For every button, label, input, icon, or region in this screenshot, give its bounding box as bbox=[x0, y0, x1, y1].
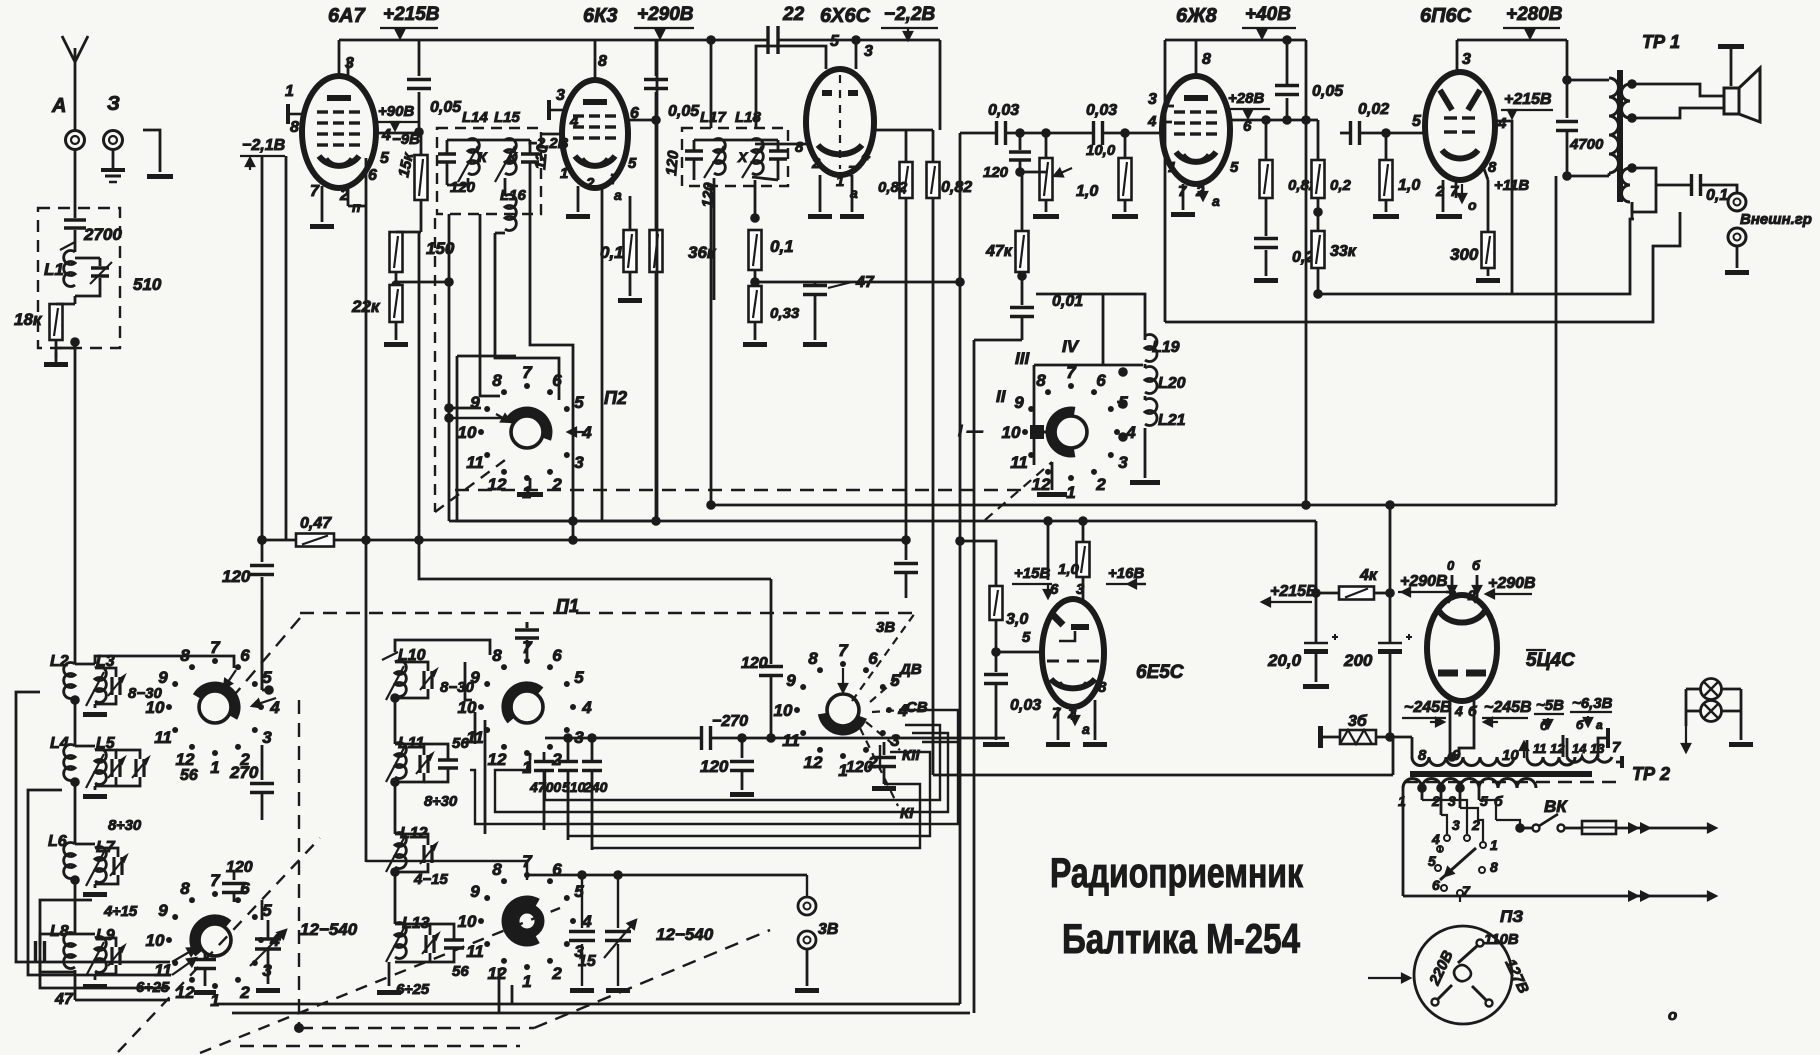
wire pin5 in bbox=[252, 698, 276, 706]
TR1 core bbox=[1617, 70, 1623, 202]
svg-text:8: 8 bbox=[1490, 859, 1498, 875]
resistor 0.1 bbox=[624, 230, 637, 272]
svg-text:3В: 3В bbox=[818, 921, 838, 938]
resistor (0.1 pair) bbox=[650, 230, 663, 272]
long wire y=299 bbox=[1512, 219, 1634, 294]
svg-text:20,0: 20,0 bbox=[1267, 651, 1302, 670]
ground bbox=[1130, 480, 1160, 485]
resistor 0.33 bbox=[749, 286, 762, 322]
ground bbox=[94, 704, 97, 708]
ground bbox=[1373, 214, 1399, 219]
wire pin2 right bbox=[545, 737, 700, 740]
capacitor 47 bbox=[755, 281, 815, 284]
wire right vertical bbox=[1305, 40, 1308, 505]
switch wafer P2-I bbox=[511, 416, 543, 448]
svg-text:4: 4 bbox=[581, 698, 592, 717]
svg-text:L18: L18 bbox=[735, 109, 762, 126]
bus y505 bbox=[711, 504, 1556, 507]
svg-text:1,0: 1,0 bbox=[1398, 177, 1420, 194]
ground bbox=[1046, 742, 1070, 747]
wire top bus bbox=[660, 39, 767, 42]
wire sec lower bbox=[1632, 168, 1656, 185]
svg-text:6: 6 bbox=[552, 371, 562, 390]
svg-text:3: 3 bbox=[864, 43, 873, 60]
svg-text:4: 4 bbox=[861, 147, 871, 164]
resistor 300 bbox=[1482, 232, 1495, 268]
capacitor (IF2 right) bbox=[769, 149, 787, 152]
svg-text:Внешн.гр: Внешн.гр bbox=[1740, 211, 1812, 228]
svg-text:2: 2 bbox=[551, 750, 562, 769]
svg-text:6П6С: 6П6С bbox=[1420, 5, 1472, 27]
ground bbox=[1083, 742, 1107, 747]
svg-text:СВ: СВ bbox=[906, 699, 928, 716]
resistor 150 bbox=[390, 232, 403, 272]
wire box down bbox=[480, 214, 500, 396]
svg-text:6: 6 bbox=[240, 646, 250, 665]
nested wires wafer3 right bbox=[899, 710, 958, 742]
wire pin9 bbox=[449, 407, 481, 410]
wire sec to speaker bbox=[1632, 84, 1724, 96]
selector rotor bbox=[1440, 848, 1476, 880]
wire bbox=[1317, 268, 1320, 294]
svg-text:47: 47 bbox=[54, 991, 74, 1008]
resistor 0.1 (det load) bbox=[749, 230, 762, 270]
ground bbox=[256, 988, 280, 993]
tube 6X6S (U3) bbox=[806, 69, 874, 175]
svg-text:8−30: 8−30 bbox=[440, 679, 474, 696]
ground bbox=[384, 342, 408, 347]
ground bbox=[1718, 44, 1744, 49]
svg-text:11: 11 bbox=[782, 731, 800, 750]
node bbox=[750, 277, 760, 287]
capacitor 120 (AVC) bbox=[261, 540, 264, 562]
svg-text:2: 2 bbox=[1095, 475, 1106, 494]
node bbox=[1017, 271, 1027, 281]
trimmer L13 bbox=[424, 935, 427, 953]
svg-text:б: б bbox=[1576, 718, 1584, 732]
switch section box bbox=[1036, 293, 1103, 296]
svg-text:+215В: +215В bbox=[383, 4, 440, 25]
fuse Pr1 bbox=[1582, 821, 1616, 834]
P2 enclosure dashed bbox=[434, 218, 436, 512]
svg-text:0,05: 0,05 bbox=[430, 99, 462, 116]
svg-text:0,03: 0,03 bbox=[1086, 102, 1117, 119]
svg-text:0,02: 0,02 bbox=[1358, 101, 1389, 118]
svg-text:4: 4 bbox=[1431, 831, 1440, 847]
pin 5 bbox=[825, 52, 828, 69]
arrow bbox=[1685, 726, 1687, 752]
wire bbox=[754, 322, 757, 340]
ground bbox=[743, 342, 767, 347]
svg-text:3б: 3б bbox=[1348, 713, 1368, 730]
primary taps bbox=[1421, 788, 1424, 800]
wire screen bbox=[1495, 121, 1512, 294]
svg-text:L15: L15 bbox=[494, 109, 521, 126]
svg-text:8: 8 bbox=[1488, 159, 1497, 176]
wire bbox=[420, 200, 423, 232]
capacitor 0.03 b bbox=[1092, 121, 1095, 145]
wire pin12 ground bbox=[529, 478, 532, 490]
svg-text:120: 120 bbox=[846, 759, 873, 776]
wire pin5 bbox=[996, 651, 1042, 654]
svg-text:14 13: 14 13 bbox=[1572, 741, 1605, 756]
svg-text:8: 8 bbox=[598, 53, 607, 70]
svg-text:8: 8 bbox=[290, 119, 299, 136]
svg-text:ДВ: ДВ bbox=[898, 661, 922, 678]
TR2 primary bbox=[1403, 779, 1536, 788]
svg-text:5: 5 bbox=[1412, 113, 1422, 130]
svg-text:0: 0 bbox=[1447, 558, 1455, 573]
svg-text:Х: Х bbox=[737, 149, 749, 165]
svg-text:6Х6С: 6Х6С bbox=[820, 5, 871, 27]
antenna W1 bbox=[74, 48, 77, 132]
voltage selector plug P3 bbox=[1414, 926, 1512, 1024]
pilot lamps bbox=[1701, 679, 1722, 700]
svg-text:3: 3 bbox=[345, 55, 354, 72]
node bbox=[1385, 588, 1395, 598]
svg-text:а: а bbox=[1212, 193, 1220, 209]
capacitor 0.02 bbox=[1349, 121, 1352, 145]
wire to wafer bbox=[1034, 431, 1050, 434]
svg-text:9: 9 bbox=[786, 671, 796, 690]
svg-text:П2: П2 bbox=[604, 388, 627, 408]
tube 6K3 (U2) bbox=[594, 40, 597, 80]
dashed link bbox=[985, 462, 1052, 520]
resistor 18k bbox=[74, 296, 77, 304]
tube 6A7 (U1) bbox=[338, 40, 341, 78]
svg-text:11 12: 11 12 bbox=[1533, 741, 1565, 756]
ground bbox=[606, 988, 630, 993]
wire +290 vertical bbox=[1389, 505, 1392, 593]
switch wafer V1a bbox=[199, 691, 231, 723]
node bbox=[390, 867, 400, 877]
wire plate bbox=[1228, 119, 1287, 122]
capacitor 120 (x906) bbox=[894, 562, 918, 565]
svg-text:+28В: +28В bbox=[1228, 90, 1264, 107]
pin 2 bbox=[347, 186, 350, 206]
svg-text:11: 11 bbox=[1010, 453, 1028, 472]
svg-text:10: 10 bbox=[1002, 423, 1021, 442]
capacitor 270 (series) bbox=[700, 726, 703, 750]
wire pin4 bbox=[1449, 742, 1452, 757]
resistor 0.82 b bbox=[927, 162, 940, 198]
wire bbox=[1736, 246, 1739, 268]
svg-text:~245В: ~245В bbox=[1404, 699, 1452, 716]
svg-text:3: 3 bbox=[890, 731, 900, 750]
svg-text:510: 510 bbox=[133, 275, 162, 294]
svg-text:7: 7 bbox=[1178, 183, 1187, 200]
capacitor (wafer1b) bbox=[204, 952, 207, 958]
TR2 HV secondary bbox=[1412, 757, 1514, 766]
svg-text:7: 7 bbox=[838, 641, 849, 660]
svg-text:2: 2 bbox=[239, 983, 250, 1002]
node bbox=[1118, 399, 1128, 409]
ground bbox=[730, 792, 754, 797]
ground bbox=[1725, 270, 1749, 275]
svg-text:110В: 110В bbox=[1484, 931, 1519, 948]
svg-text:5: 5 bbox=[380, 150, 390, 167]
pin 3 stub bbox=[549, 109, 563, 112]
wire 0.01 to x974 bbox=[974, 339, 1022, 342]
wire bbox=[1376, 736, 1412, 739]
svg-text:А: А bbox=[51, 95, 66, 117]
pickup jack 3V a bbox=[806, 875, 808, 897]
svg-text:12: 12 bbox=[176, 983, 195, 1002]
trimmer L7 bbox=[112, 857, 115, 875]
svg-text:ВК: ВК bbox=[1544, 797, 1568, 816]
ground bbox=[1303, 684, 1329, 689]
svg-text:8÷30: 8÷30 bbox=[108, 817, 142, 834]
nested wires left bbox=[16, 692, 170, 962]
svg-text:3: 3 bbox=[262, 728, 272, 747]
wire shaft bbox=[366, 861, 527, 880]
svg-text:4к: 4к bbox=[1359, 567, 1378, 584]
bottom bus pair bbox=[215, 1003, 960, 1006]
wire top link bbox=[528, 861, 530, 875]
svg-text:5: 5 bbox=[574, 668, 584, 687]
variable cap 12-540 b bbox=[617, 875, 619, 928]
wire grid1 left down bbox=[261, 156, 264, 540]
wire pin7 down bbox=[601, 226, 604, 521]
ground bbox=[94, 786, 97, 790]
wire bbox=[655, 120, 658, 521]
wire x1165 down bbox=[1164, 40, 1167, 322]
svg-text:о: о bbox=[1668, 1007, 1677, 1024]
capacitor 120 (band) bbox=[233, 872, 236, 880]
svg-text:10,0: 10,0 bbox=[1086, 142, 1116, 159]
svg-text:1: 1 bbox=[1490, 837, 1498, 853]
wire x286 down bbox=[285, 156, 288, 540]
svg-text:9: 9 bbox=[470, 882, 480, 901]
ground bbox=[566, 214, 590, 219]
svg-text:−270: −270 bbox=[712, 713, 748, 730]
svg-text:L8: L8 bbox=[50, 923, 69, 940]
capacitor 120 (right) bbox=[521, 152, 539, 155]
trimmer L11a bbox=[418, 755, 421, 773]
transformer TR1 primary bbox=[1609, 78, 1619, 173]
svg-text:4: 4 bbox=[1125, 423, 1136, 442]
ground bbox=[1476, 278, 1500, 283]
wire pin8 bbox=[755, 143, 807, 146]
svg-text:9: 9 bbox=[158, 901, 168, 920]
ground bbox=[808, 214, 832, 219]
svg-text:8: 8 bbox=[180, 879, 190, 898]
svg-text:6÷25: 6÷25 bbox=[396, 981, 430, 998]
resistor 0.47 bbox=[296, 534, 334, 547]
svg-text:22к: 22к bbox=[351, 297, 381, 316]
svg-text:300: 300 bbox=[1450, 245, 1479, 264]
trimmer 8-30 bbox=[110, 677, 113, 695]
capacitor 120 (upper) bbox=[770, 579, 773, 664]
svg-text:0,82: 0,82 bbox=[941, 179, 972, 196]
svg-text:120: 120 bbox=[226, 859, 253, 876]
svg-text:L20: L20 bbox=[1158, 375, 1186, 392]
svg-text:200: 200 bbox=[1343, 651, 1373, 670]
wire pin6 bbox=[1047, 521, 1050, 580]
svg-text:6Е5С: 6Е5С bbox=[1136, 662, 1184, 683]
svg-text:КII: КII bbox=[902, 747, 920, 764]
ground bbox=[629, 292, 632, 296]
capacitors 4700 510 240 bbox=[529, 753, 532, 760]
wire pin6 arrow bbox=[224, 670, 236, 688]
svg-text:7: 7 bbox=[1450, 183, 1459, 200]
variable cap 12-540 a bbox=[255, 937, 281, 940]
svg-text:+90В: +90В bbox=[378, 103, 414, 120]
switch wafer P2-IV (U?) bbox=[1055, 416, 1087, 448]
ground bbox=[872, 786, 896, 791]
node bbox=[390, 777, 400, 787]
AVC wire y282 bbox=[815, 281, 960, 284]
svg-text:510: 510 bbox=[562, 779, 586, 795]
wire grid from L15 bbox=[541, 133, 562, 136]
heater line bbox=[933, 774, 1393, 777]
tube 5Ts4S rectifier (U7) bbox=[1427, 595, 1497, 701]
svg-text:56: 56 bbox=[452, 963, 469, 980]
svg-text:4: 4 bbox=[381, 127, 391, 144]
capacitor L11b bbox=[438, 758, 458, 761]
node bbox=[1313, 207, 1323, 217]
svg-text:III: III bbox=[1015, 349, 1030, 368]
svg-text:~6,3В: ~6,3В bbox=[1572, 695, 1613, 712]
svg-text:0,05: 0,05 bbox=[668, 103, 700, 120]
IF transformer II dashed box bbox=[682, 128, 788, 186]
wire bbox=[900, 39, 940, 42]
tube 6E5S (U6) bbox=[1042, 599, 1104, 707]
svg-text:12−540: 12−540 bbox=[300, 920, 358, 939]
svg-text:12: 12 bbox=[488, 964, 507, 983]
P1 dashed boundary bbox=[300, 612, 915, 614]
svg-text:3: 3 bbox=[1148, 91, 1157, 108]
ground bbox=[1436, 214, 1462, 219]
svg-text:З: З bbox=[107, 93, 120, 115]
svg-text:6: 6 bbox=[1432, 877, 1440, 893]
pin 2 bbox=[819, 175, 822, 212]
capacitor 2700 bbox=[74, 215, 77, 218]
svg-text:+280В: +280В bbox=[1506, 4, 1563, 25]
pin 2 bbox=[577, 186, 580, 212]
ground bbox=[1033, 214, 1059, 219]
capacitor 0.03 bbox=[995, 652, 998, 672]
svg-text:9: 9 bbox=[470, 668, 480, 687]
wire L19 top bbox=[1103, 294, 1145, 336]
capacitor 270 bbox=[261, 770, 264, 780]
svg-text:о: о bbox=[1468, 197, 1477, 213]
wire bbox=[1487, 268, 1490, 276]
TR2 6.3V winding bbox=[1567, 757, 1612, 762]
svg-text:+15В: +15В bbox=[1014, 565, 1050, 582]
svg-text:270: 270 bbox=[229, 763, 259, 782]
ground bbox=[94, 974, 97, 980]
pin 7 bbox=[321, 186, 324, 222]
svg-text:L14: L14 bbox=[462, 109, 489, 126]
tube 6Zh8 (U4) bbox=[1195, 40, 1198, 76]
wires L10-13 to wafer2 bbox=[395, 640, 490, 655]
svg-text:5: 5 bbox=[262, 668, 272, 687]
wire wafer1 pins right bbox=[261, 900, 264, 920]
svg-text:КI: КI bbox=[900, 805, 914, 822]
wire down from bus bbox=[710, 40, 713, 128]
wire bbox=[388, 962, 391, 986]
wire L17 down bbox=[713, 178, 716, 300]
svg-text:0,47: 0,47 bbox=[300, 515, 332, 532]
pin 7 bbox=[601, 186, 604, 226]
wire L3 top to wafer bbox=[95, 656, 234, 668]
svg-text:0,05: 0,05 bbox=[1312, 83, 1344, 100]
selector wires bbox=[1422, 800, 1467, 834]
svg-text:0,01: 0,01 bbox=[1052, 293, 1083, 310]
svg-text:10: 10 bbox=[458, 423, 477, 442]
svg-text:11: 11 bbox=[466, 942, 484, 961]
jack external speaker 2 bbox=[1728, 228, 1746, 246]
wire bbox=[143, 130, 160, 172]
svg-text:0,82: 0,82 bbox=[878, 179, 908, 196]
svg-text:L4: L4 bbox=[50, 735, 69, 752]
vertical x970 bbox=[973, 340, 976, 1013]
wire 0.47 junction bbox=[257, 535, 267, 545]
wire pin3 bbox=[1165, 105, 1174, 108]
svg-text:0,1: 0,1 bbox=[770, 237, 794, 256]
svg-text:ПЗ: ПЗ bbox=[1500, 907, 1523, 926]
svg-text:6: 6 bbox=[552, 646, 562, 665]
svg-text:6К3: 6К3 bbox=[583, 5, 618, 27]
wire 6A7 plate right bbox=[373, 132, 419, 135]
svg-text:б: б bbox=[1472, 558, 1481, 573]
wire bbox=[770, 677, 773, 738]
resistor 0.82 a bbox=[900, 162, 913, 198]
svg-text:4: 4 bbox=[569, 113, 579, 130]
wire L8 bottom bbox=[74, 970, 77, 1000]
svg-text:7: 7 bbox=[310, 183, 320, 200]
wire x262 down join bbox=[261, 600, 264, 690]
svg-text:7: 7 bbox=[610, 171, 619, 188]
svg-text:47к: 47к bbox=[985, 243, 1013, 260]
svg-text:6Ж8: 6Ж8 bbox=[1176, 5, 1218, 27]
svg-text:7: 7 bbox=[210, 871, 221, 890]
wire arrow into wafer3 bbox=[842, 668, 844, 692]
svg-text:I —: I — bbox=[958, 423, 984, 440]
wire L18 down bbox=[754, 180, 757, 218]
wire selector to switch bbox=[1496, 820, 1520, 828]
tube 6P6S (U5) bbox=[1456, 40, 1459, 74]
wire x1556 up bbox=[1555, 176, 1558, 505]
capacitor 0.05 bbox=[1286, 98, 1289, 120]
capacitor 15 bbox=[581, 875, 583, 928]
svg-text:8: 8 bbox=[1036, 371, 1046, 390]
wire osc grid bbox=[347, 60, 350, 78]
pickup jack 3V b bbox=[798, 931, 816, 949]
wire x419 down bbox=[418, 232, 421, 540]
svg-text:8: 8 bbox=[1098, 679, 1107, 696]
wire x906 down bbox=[905, 540, 908, 560]
svg-text:L2: L2 bbox=[50, 653, 69, 670]
wire bbox=[1389, 682, 1392, 737]
trimmer L5a bbox=[110, 759, 113, 777]
node bbox=[1515, 823, 1525, 833]
wire into rotor left bbox=[449, 417, 505, 419]
TR2 5V winding bbox=[1527, 757, 1575, 765]
wire pin6 bbox=[1117, 401, 1123, 404]
capacitor 4700 bbox=[1556, 120, 1578, 123]
svg-text:8÷30: 8÷30 bbox=[424, 793, 458, 810]
resistor 3.0 bbox=[990, 586, 1003, 620]
wire long vertical 449 bbox=[448, 214, 451, 521]
trimmer L5b bbox=[134, 759, 137, 777]
svg-text:8: 8 bbox=[795, 139, 804, 156]
svg-text:7: 7 bbox=[1066, 363, 1077, 382]
ground bbox=[1112, 214, 1138, 219]
wire wafer2 pin bottom bbox=[529, 753, 532, 756]
svg-text:+290В: +290В bbox=[1488, 575, 1536, 592]
